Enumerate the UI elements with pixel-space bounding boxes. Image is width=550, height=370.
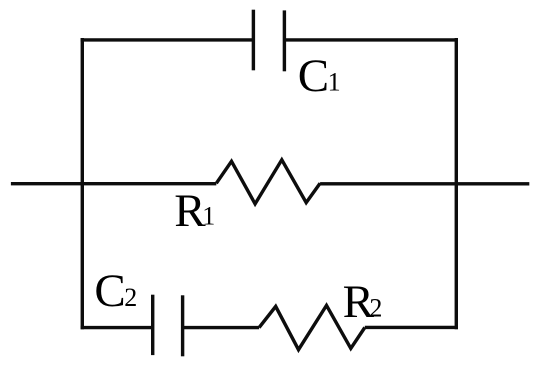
label R2 — [343, 276, 383, 328]
svg-text:2: 2 — [124, 283, 137, 312]
wire middle left lead — [11, 182, 216, 185]
wire top left segment — [81, 38, 254, 41]
wire top right segment — [284, 38, 458, 41]
wire bottom right segment — [365, 326, 458, 329]
wire left vertical branch — [81, 38, 84, 329]
capacitor C1 — [253, 10, 284, 72]
wire right vertical branch — [455, 38, 458, 329]
wire bottom middle segment — [183, 326, 260, 329]
label R1 — [174, 185, 215, 237]
wire middle right lead — [320, 182, 529, 185]
wire bottom left segment — [81, 326, 151, 329]
svg-text:C: C — [94, 265, 125, 317]
svg-text:1: 1 — [202, 202, 215, 231]
label C1 — [298, 50, 341, 102]
svg-text:1: 1 — [328, 68, 341, 97]
label C2 — [94, 265, 137, 317]
svg-text:2: 2 — [369, 294, 382, 323]
capacitor C2 — [153, 295, 183, 357]
resistor R2 — [259, 305, 365, 349]
svg-text:C: C — [298, 50, 329, 102]
resistor R1 — [216, 160, 320, 204]
